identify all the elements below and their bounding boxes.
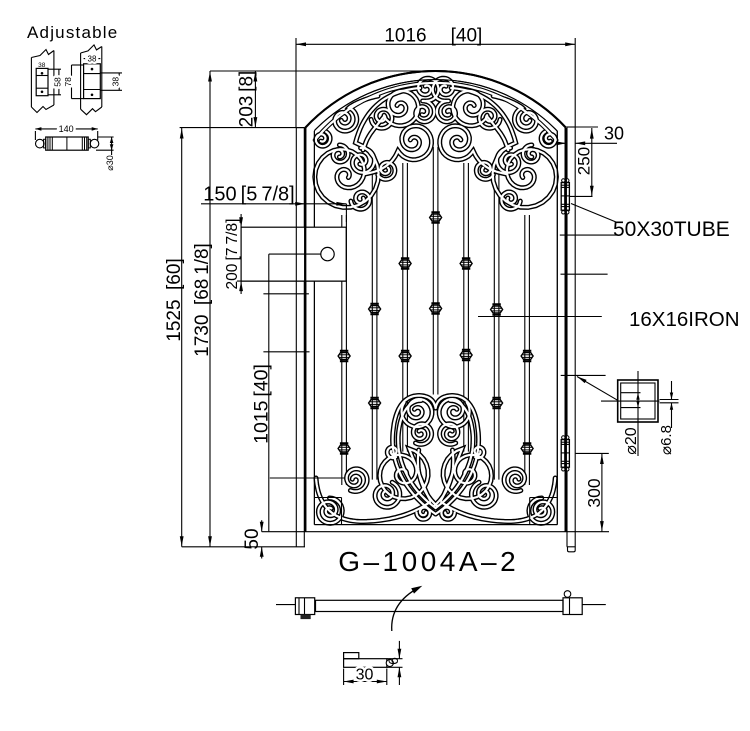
svg-text:30: 30 <box>356 667 374 684</box>
svg-text:250: 250 <box>575 147 594 175</box>
svg-text:⌀30: ⌀30 <box>105 155 115 170</box>
svg-text:30: 30 <box>604 124 624 144</box>
svg-text:78: 78 <box>63 77 73 87</box>
svg-text:⌀6.8: ⌀6.8 <box>658 425 675 455</box>
svg-text:G–1004A–2: G–1004A–2 <box>338 546 519 577</box>
svg-text:50X30TUBE: 50X30TUBE <box>613 218 730 241</box>
svg-text:38: 38 <box>110 77 120 87</box>
svg-text:38: 38 <box>38 62 46 69</box>
svg-text:140: 140 <box>59 124 74 134</box>
svg-text:200 [7 7/8]: 200 [7 7/8] <box>224 219 241 290</box>
svg-text:1016: 1016 <box>384 26 426 47</box>
svg-text:300: 300 <box>584 478 604 507</box>
svg-text:1015 [40]: 1015 [40] <box>251 364 273 444</box>
svg-text:1730 [68 1/8]: 1730 [68 1/8] <box>192 243 213 357</box>
svg-text:⌀20: ⌀20 <box>623 427 640 455</box>
svg-text:[40]: [40] <box>451 26 483 47</box>
svg-text:58: 58 <box>53 77 63 87</box>
svg-text:Adjustable: Adjustable <box>27 23 118 42</box>
svg-text:1525 [60]: 1525 [60] <box>164 258 185 341</box>
svg-text:203 [8]: 203 [8] <box>237 71 258 128</box>
svg-text:50: 50 <box>242 528 263 549</box>
svg-text:38: 38 <box>88 54 97 63</box>
svg-text:6: 6 <box>385 657 401 665</box>
svg-text:150 [5 7/8]: 150 [5 7/8] <box>203 184 294 206</box>
svg-text:16X16IRON: 16X16IRON <box>629 308 740 331</box>
